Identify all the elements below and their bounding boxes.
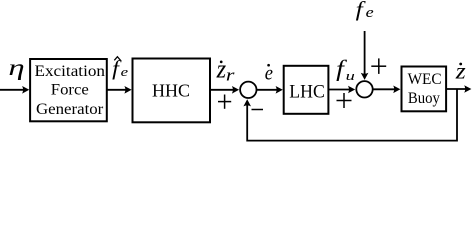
wire fu <box>328 89 349 91</box>
node z-dot output label <box>455 59 467 85</box>
wire input <box>0 89 24 91</box>
minus sign at summing junction 1 <box>252 109 264 111</box>
arrowhead into summing junction 2 <box>348 86 355 94</box>
wire feedback loop <box>247 89 457 141</box>
wire fe disturbance <box>364 31 366 76</box>
arrowhead output <box>464 85 471 93</box>
wire into WEC Buoy <box>373 88 395 90</box>
node eta label <box>8 55 24 80</box>
block Excitation Force Generator <box>30 59 107 121</box>
wire output z-dot <box>446 88 466 90</box>
arrowhead into Excitation box <box>22 86 29 94</box>
svg-text:LHC: LHC <box>289 82 325 102</box>
svg-text:η: η <box>8 55 24 80</box>
summing junction 2 <box>356 81 372 97</box>
arrowhead into LHC box <box>276 86 283 94</box>
svg-text:z: z <box>216 56 227 84</box>
arrowhead feedback into summing junction 1 <box>243 99 251 106</box>
svg-text:Force: Force <box>51 81 89 98</box>
block HHC <box>133 59 211 123</box>
wire fe-hat <box>107 89 126 91</box>
wire zr-dot <box>210 89 233 91</box>
svg-text:e: e <box>366 3 374 20</box>
arrowhead down into summing junction 2 <box>361 73 369 80</box>
node e-dot label <box>265 61 273 85</box>
arrowhead into WEC box <box>393 86 400 94</box>
arrowhead into HHC box <box>124 86 131 94</box>
svg-text:r: r <box>226 67 235 85</box>
node fe disturbance label <box>356 0 374 21</box>
block WEC Buoy <box>402 67 447 112</box>
node zr-dot label <box>216 56 235 85</box>
svg-text:WEC: WEC <box>408 71 442 88</box>
plus sign at summing junction 1 <box>218 95 231 109</box>
svg-text:Generator: Generator <box>36 101 103 118</box>
plus sign above summing junction 2 <box>371 58 386 74</box>
svg-text:Buoy: Buoy <box>408 90 440 107</box>
node fu label <box>336 56 355 83</box>
arrowhead into summing junction 1 <box>232 86 239 94</box>
plus sign left of summing junction 2 <box>337 93 352 108</box>
node fe-hat label <box>112 56 128 79</box>
svg-text:Excitation: Excitation <box>35 63 106 80</box>
summing junction 1 <box>240 82 256 98</box>
svg-text:u: u <box>346 70 355 83</box>
wire e-dot <box>257 89 278 91</box>
block LHC <box>284 66 329 114</box>
svg-text:z: z <box>455 59 467 85</box>
svg-text:e: e <box>121 66 129 80</box>
svg-text:HHC: HHC <box>152 81 190 101</box>
